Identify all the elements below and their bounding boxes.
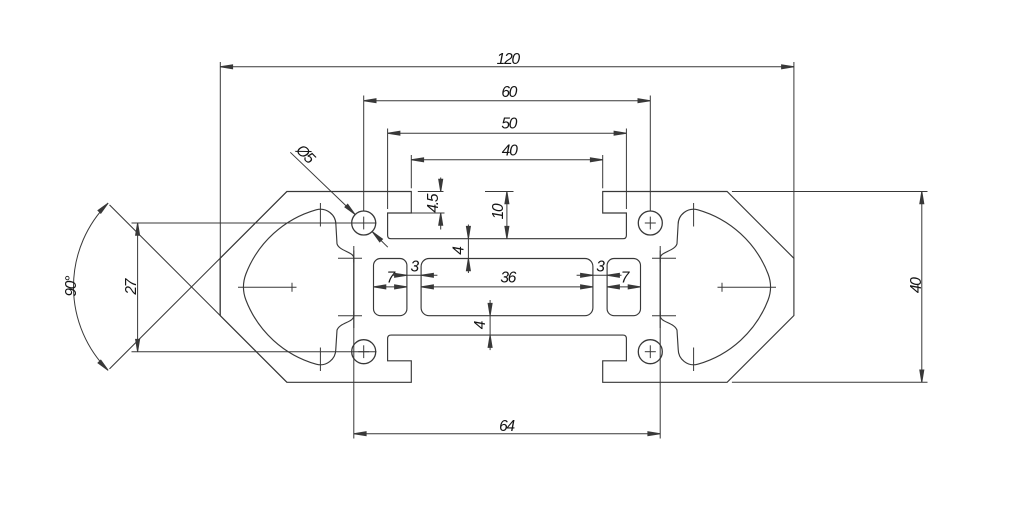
screw hole O5 bottom-left xyxy=(352,340,376,364)
dim 3 left xyxy=(393,274,438,276)
O5 leader line xyxy=(290,152,355,214)
right side slot 7 wide xyxy=(607,259,640,316)
svg-text:64: 64 xyxy=(499,418,515,435)
dim 64 line xyxy=(354,433,660,435)
dim 40 right line xyxy=(921,192,923,383)
left cavity nose centerline xyxy=(238,286,297,288)
svg-text:4.5: 4.5 xyxy=(425,193,442,213)
right cavity nose centerline xyxy=(718,286,777,288)
svg-text:36: 36 xyxy=(500,270,516,287)
svg-text:10: 10 xyxy=(490,203,507,219)
O5 leader opposite arrow xyxy=(372,232,387,247)
dim 60 xyxy=(363,96,365,211)
dim 36 central slot width xyxy=(421,286,593,288)
center mark top-left xyxy=(358,222,369,224)
arrowhead arc top xyxy=(98,203,108,213)
construction line upper chamfer extended xyxy=(110,192,287,369)
central slot 36x12 rounded rect xyxy=(421,259,593,316)
dim 50 xyxy=(387,129,389,210)
dim 4 lower web xyxy=(489,300,491,350)
dim 120 xyxy=(219,62,221,316)
center mark top-right xyxy=(645,222,656,224)
svg-text:120: 120 xyxy=(497,51,521,68)
construction line lower chamfer extended xyxy=(110,205,287,382)
dim 10 slot depth xyxy=(485,191,514,193)
center mark bottom-right xyxy=(645,351,656,353)
screw hole O5 top-left xyxy=(352,211,376,235)
dim 4.5 lip height xyxy=(418,191,444,193)
cavity tangent ticks xyxy=(319,203,321,227)
dim 3 right xyxy=(577,274,622,276)
svg-text:40: 40 xyxy=(502,142,518,159)
svg-text:60: 60 xyxy=(501,84,517,101)
left side slot 7 wide xyxy=(374,259,407,316)
svg-text:27: 27 xyxy=(123,277,140,295)
svg-text:90°: 90° xyxy=(63,276,80,297)
right cavity (mirror) xyxy=(660,209,770,365)
arrowhead arc bottom xyxy=(98,360,108,370)
dim 40 right extension lines xyxy=(732,191,928,193)
dim 27 extension lines xyxy=(132,222,377,224)
dim 27 line xyxy=(137,223,139,352)
dim 4 upper web xyxy=(467,225,469,274)
svg-text:50: 50 xyxy=(501,116,517,133)
90deg dimension arc xyxy=(74,203,109,370)
profile outer outline with top and bottom T-slots and 45deg chamfered ends xyxy=(220,192,794,383)
dim 64 extension lines xyxy=(353,251,355,439)
dim 7 right xyxy=(607,286,640,288)
dim 40 top xyxy=(410,155,412,188)
screw hole O5 top-right xyxy=(638,211,662,235)
svg-text:40: 40 xyxy=(908,277,925,293)
dim 7 left xyxy=(374,286,407,288)
center mark bottom-left xyxy=(358,351,369,353)
left cavity (bullet shaped opening) xyxy=(244,209,354,365)
screw hole O5 bottom-right xyxy=(638,340,662,364)
